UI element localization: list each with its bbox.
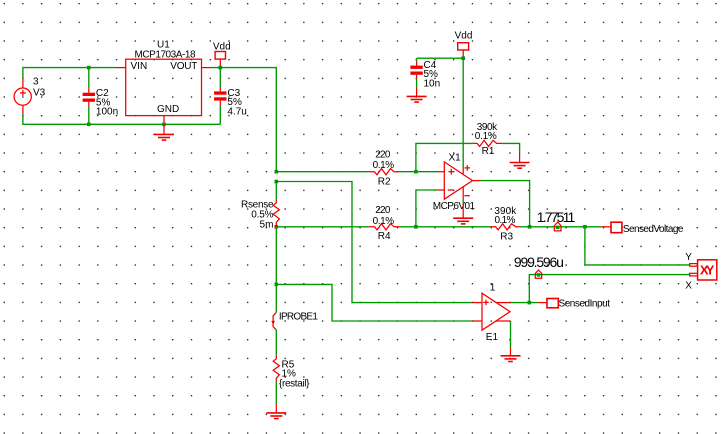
- label R5: [282, 359, 295, 370]
- label R4 value 220: [375, 205, 391, 216]
- svg-text:4.7u: 4.7u: [227, 107, 246, 118]
- wire C4 to Vdd2: [417, 57, 464, 59]
- svg-text:100n: 100n: [96, 107, 118, 118]
- label R3 value 390k: [494, 206, 517, 217]
- wire E1 output to SensedInput: [511, 302, 539, 304]
- wire IPROBE to R5: [275, 330, 277, 355]
- svg-text:MCP1703A-18: MCP1703A-18: [135, 50, 196, 61]
- svg-text:Vdd: Vdd: [455, 30, 473, 41]
- node junction Rsense top R2 tap: [275, 170, 279, 174]
- svg-text:0.1%: 0.1%: [495, 215, 516, 226]
- svg-text:SensedInput: SensedInput: [559, 298, 611, 309]
- power flag Vdd 2 box: [458, 43, 469, 50]
- label Y: [685, 252, 692, 263]
- node junction X1 output to net: [528, 225, 532, 229]
- svg-text:1.77511: 1.77511: [537, 209, 576, 225]
- node junction IPROBE tap: [275, 283, 279, 287]
- label R4: [378, 231, 391, 242]
- pin stub Y: [690, 264, 698, 267]
- node junction minus input tap: [414, 225, 418, 229]
- port label SensedInput: [559, 298, 611, 309]
- ground under R5: [266, 404, 286, 418]
- label U1: [157, 39, 170, 50]
- label C3 tolerance: [227, 97, 242, 108]
- pin label GND: [157, 104, 179, 115]
- pin label VOUT: [170, 61, 197, 72]
- svg-text:X: X: [685, 280, 692, 291]
- label Rsense tolerance 0.5%: [251, 210, 273, 221]
- pin stub U1 GND: [163, 116, 165, 125]
- voltage source V3: [14, 79, 31, 115]
- op-amp X1: [438, 162, 481, 200]
- capacitor C4: [410, 58, 422, 88]
- label E1 gain 1: [490, 283, 496, 294]
- label X: [685, 280, 692, 291]
- label C2 tolerance: [96, 97, 111, 108]
- node junction Vdd1: [219, 66, 223, 70]
- svg-text:{restail}: {restail}: [279, 378, 310, 389]
- node junction Y tap: [583, 225, 587, 229]
- svg-text:R3: R3: [500, 231, 513, 242]
- pin stub VOUT: [202, 67, 212, 69]
- node junction R2 out: [414, 170, 418, 174]
- svg-text:999.596u: 999.596u: [514, 254, 564, 270]
- label R2 value 220: [375, 150, 391, 161]
- meas text 999.596u: [514, 254, 564, 270]
- label V3 value 3: [33, 77, 39, 88]
- resistor R4: [369, 224, 399, 230]
- svg-text:3: 3: [33, 77, 39, 88]
- svg-text:0.1%: 0.1%: [373, 160, 395, 171]
- svg-text:VIN: VIN: [131, 61, 148, 72]
- svg-text:XY: XY: [700, 262, 715, 277]
- pin stub VIN: [116, 67, 126, 69]
- XY scope label: [700, 262, 715, 277]
- wire top rail V3 to VIN: [23, 68, 116, 79]
- label U1 part MCP1703A-18: [135, 50, 196, 61]
- svg-text:1: 1: [490, 283, 496, 294]
- label Rsense: [241, 200, 274, 211]
- meas text 1.77511: [537, 209, 576, 225]
- pin stub X: [690, 273, 698, 276]
- capacitor C2: [83, 68, 95, 125]
- wire feedback to R1: [416, 143, 472, 171]
- resistor Rsense: [273, 182, 279, 227]
- wire R5 to ground: [275, 382, 277, 404]
- power flag Vdd 2 stub: [462, 50, 464, 58]
- svg-text:V3: V3: [33, 88, 46, 99]
- wire E1 out minus to ground: [510, 321, 512, 348]
- label R4 tolerance 0.1%: [373, 216, 395, 227]
- ground at R1: [510, 153, 530, 168]
- node junction C2 bottom: [87, 123, 91, 127]
- label Rsense value 5m: [260, 220, 274, 231]
- svg-text:0.1%: 0.1%: [475, 131, 497, 142]
- svg-text:E1: E1: [486, 332, 499, 343]
- label C3 value: [227, 107, 246, 118]
- label R1 tolerance 0.1%: [475, 131, 497, 142]
- label C4 tolerance: [424, 69, 439, 80]
- label R2 tolerance 0.1%: [373, 160, 395, 171]
- power flag Vdd 1 box: [215, 52, 225, 60]
- svg-text:MCP6V01: MCP6V01: [433, 201, 476, 212]
- label R3: [500, 231, 513, 242]
- port label SensedVoltage: [623, 224, 684, 235]
- label X1: [449, 152, 462, 163]
- svg-text:10n: 10n: [424, 78, 441, 89]
- node junction C2 top: [87, 66, 91, 70]
- regulator U1 box: [126, 59, 202, 115]
- capacitor C3: [214, 68, 226, 125]
- vcvs E1: [472, 293, 510, 330]
- wire X1 negative supply: [462, 200, 464, 204]
- pin label VIN: [131, 61, 148, 72]
- current probe IPROBE1: [271, 312, 276, 330]
- wire R2 to X1 plus input: [399, 171, 438, 173]
- label X1 part MCP6V01: [433, 201, 476, 212]
- svg-text:220: 220: [375, 205, 391, 216]
- node junction Rsense bottom: [275, 225, 279, 229]
- node junction meas tap at E1 out: [528, 301, 532, 305]
- meas marker 1.77511: [554, 222, 561, 231]
- wire X1 output: [481, 181, 530, 227]
- label R1: [482, 146, 495, 157]
- label R2: [378, 176, 391, 187]
- label R3 tolerance 0.1%: [495, 215, 516, 226]
- svg-text:Y: Y: [685, 252, 692, 263]
- svg-text:SensedVoltage: SensedVoltage: [623, 224, 684, 235]
- wire minus sense to E1: [276, 284, 472, 321]
- label C2 value: [96, 107, 118, 118]
- port stub SensedVoltage: [602, 226, 611, 228]
- label C4 value: [424, 78, 441, 89]
- resistor R3: [491, 224, 520, 230]
- svg-text:GND: GND: [157, 104, 179, 115]
- ground under C4: [407, 88, 427, 102]
- wire X1 minus input: [416, 190, 438, 227]
- node junction U1 GND: [162, 123, 166, 127]
- power flag Vdd 1 label: [213, 42, 231, 53]
- wire R1 to ground: [502, 143, 519, 153]
- port stub SensedInput: [538, 302, 547, 304]
- wire R2 net: [276, 171, 368, 173]
- wire R4 net: [276, 226, 368, 228]
- svg-text:R2: R2: [378, 176, 391, 187]
- label R1 value 390k: [477, 122, 498, 133]
- label C2: [96, 88, 109, 99]
- label E1: [486, 332, 499, 343]
- svg-text:X1: X1: [449, 152, 462, 163]
- svg-text:IPROBE1: IPROBE1: [279, 312, 318, 323]
- wire bottom rail: [23, 114, 220, 124]
- label C4: [424, 60, 437, 71]
- wire plus sense to E1: [276, 182, 472, 303]
- wire X to XY scope: [529, 275, 689, 303]
- svg-text:VOUT: VOUT: [170, 61, 197, 72]
- meas marker 999.596u: [535, 270, 541, 278]
- XY scope box: [698, 260, 717, 280]
- label IPROBE1: [279, 312, 318, 323]
- wire R3 to SensedVoltage: [520, 226, 602, 228]
- ground under U1: [154, 124, 174, 140]
- label C3: [227, 88, 240, 99]
- node junction Vdd2: [461, 56, 465, 60]
- resistor R1: [472, 140, 502, 146]
- power flag Vdd 2 label: [455, 30, 473, 41]
- resistor R5: [273, 355, 279, 382]
- label R5 value restail: [279, 378, 310, 389]
- wire Rsense bottom to IPROBE: [275, 227, 277, 313]
- ground under X1: [453, 203, 473, 224]
- svg-text:R1: R1: [482, 146, 495, 157]
- label R5 tolerance 1%: [282, 369, 297, 380]
- port box SensedVoltage: [611, 222, 622, 233]
- ground under E1: [501, 348, 521, 362]
- svg-text:R4: R4: [378, 231, 391, 242]
- svg-text:5m: 5m: [260, 220, 274, 231]
- svg-text:0.1%: 0.1%: [373, 216, 395, 227]
- label V3 name: [33, 88, 46, 99]
- resistor R2: [369, 169, 399, 175]
- power flag Vdd 1 stub: [219, 59, 221, 68]
- wire Vdd2 down to op-amp X1: [462, 58, 464, 167]
- wire VOUT net: [211, 68, 276, 172]
- node junction Rsense sense tap: [275, 180, 279, 184]
- wire Y to XY scope: [585, 227, 690, 265]
- wire R4 to R3: [399, 226, 491, 228]
- port box SensedInput: [547, 299, 558, 308]
